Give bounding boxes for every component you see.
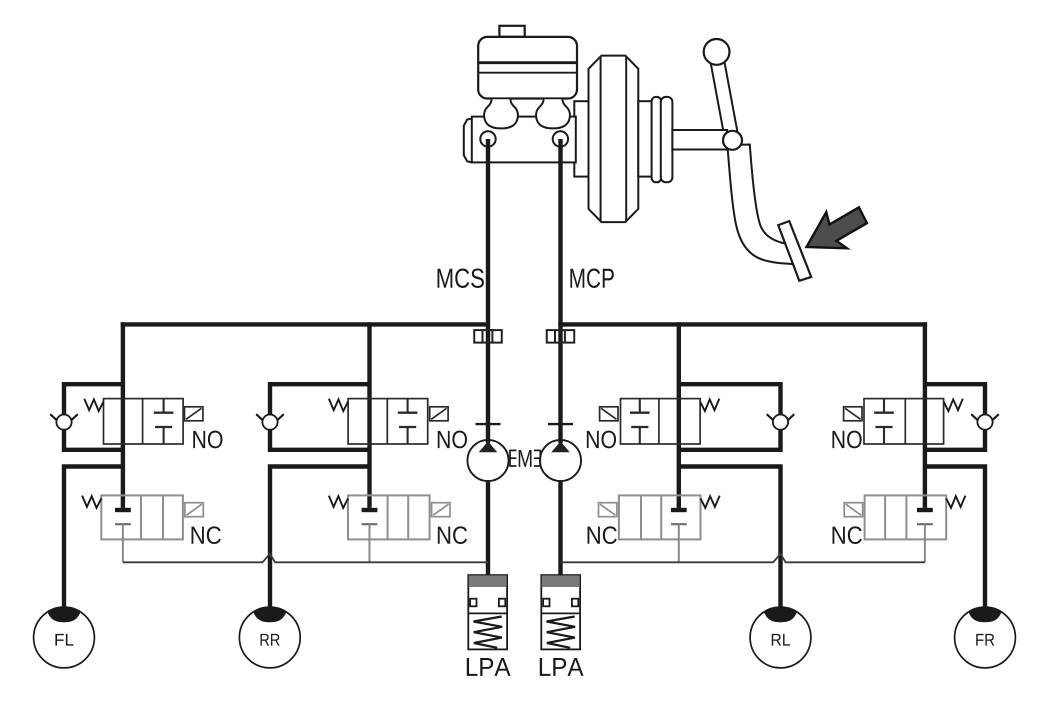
wire wheel branch group 4 (925, 467, 985, 610)
solenoid of NO valve 4 (844, 407, 862, 421)
label RR (260, 634, 279, 646)
label NO 1 (193, 431, 222, 449)
NC valve 4 (865, 495, 947, 539)
pushrod joint (723, 131, 742, 150)
NO valve 2 (348, 399, 428, 444)
label MCP (570, 269, 613, 288)
booster right connector (638, 101, 652, 176)
reservoir (478, 37, 577, 99)
wire rail group 2 (367, 322, 371, 508)
wheel cylinder RL (750, 607, 811, 668)
wire wheel branch group 2 (270, 467, 370, 610)
booster left connector (574, 101, 588, 176)
wheel cylinder FR (955, 607, 1016, 668)
label NO 4 (832, 431, 861, 449)
MC port MCP (553, 131, 568, 146)
pedal lever lower arm (727, 145, 797, 265)
booster ring 1 (652, 97, 662, 182)
wire wheel branch group 3 (679, 467, 781, 610)
wire wheel branch group 1 (64, 467, 123, 610)
solenoid of NC valve 2 (432, 503, 450, 517)
closed seat of NC valve 1 (115, 508, 131, 524)
closed seat of NC valve 4 (917, 508, 933, 524)
pump 1 (MCS) (467, 440, 508, 481)
spring of NO valve 4 (944, 399, 963, 411)
wire bypass loop group 1 (64, 384, 123, 452)
motor shaft coupling right (534, 450, 540, 467)
drain wire group 4 (924, 524, 926, 562)
spring of NC valve 1 (82, 496, 101, 508)
solenoid of NC valve 1 (185, 503, 203, 517)
spring of NO valve 3 (700, 399, 719, 411)
label MCS (438, 269, 484, 288)
MC port MCS (480, 131, 495, 146)
solenoid of NO valve 2 (430, 407, 448, 421)
label FR (976, 634, 994, 646)
pushrod (672, 130, 727, 150)
closed seat of NC valve 2 (362, 508, 378, 524)
reservoir port hump right (536, 99, 570, 128)
NO valve 4 (864, 399, 944, 444)
motor shaft coupling left (510, 450, 516, 467)
drain wire group 2 (369, 524, 371, 562)
spring of NC valve 2 (329, 496, 348, 508)
damper on MCS line (474, 330, 502, 343)
wire MCS vertical (486, 139, 490, 577)
label NC 1 (192, 526, 221, 544)
solenoid of NC valve 4 (844, 503, 862, 517)
NC valve 1 (101, 495, 183, 539)
wheel cylinder FL (34, 607, 95, 668)
closed seat of NC valve 3 (671, 508, 687, 524)
wheel cylinder RR (239, 607, 300, 668)
force arrow (807, 207, 867, 248)
label NC 3 (588, 526, 617, 544)
left return wire (123, 554, 488, 563)
pedal pivot (704, 39, 730, 65)
NC valve 3 (619, 495, 701, 539)
spring of NC valve 3 (701, 496, 720, 508)
pump 2 (MCP) (540, 440, 581, 481)
label NO 2 (438, 431, 467, 449)
solenoid of NC valve 3 (599, 503, 617, 517)
label NC 2 (438, 526, 467, 544)
wire left manifold (121, 322, 490, 326)
reservoir port hump left (484, 99, 518, 128)
label NC 4 (833, 526, 862, 544)
accumulator LPA 1 (468, 575, 507, 649)
motor M label (519, 450, 532, 467)
outlet tick pump 2 (MCP) (548, 423, 573, 425)
NC valve 2 (348, 495, 430, 539)
spring of NC valve 4 (946, 496, 965, 508)
label LPA 1 (467, 658, 511, 676)
drain wire group 1 (122, 524, 124, 562)
solenoid of NO valve 3 (600, 407, 618, 421)
check valve group 1 (50, 414, 78, 430)
spring of NO valve 2 (329, 399, 348, 411)
accumulator LPA 2 (541, 575, 580, 649)
master cylinder body (464, 117, 576, 163)
outlet tick pump 1 (MCS) (476, 423, 501, 425)
label LPA 2 (540, 658, 584, 676)
label NO 3 (587, 431, 616, 449)
wire bypass loop group 2 (270, 384, 370, 452)
label FL (55, 634, 73, 646)
wire rail group 4 (923, 322, 927, 508)
solenoid of NO valve 1 (185, 407, 203, 421)
wire MCP vertical (558, 139, 562, 577)
wire bypass loop group 3 (679, 384, 781, 452)
booster ring 2 (661, 97, 673, 182)
wire bypass loop group 4 (925, 384, 985, 452)
check valve group 4 (971, 414, 999, 430)
drain wire group 3 (678, 524, 680, 562)
wire rail group 1 (121, 322, 125, 508)
right return wire (561, 554, 925, 563)
reservoir cap (499, 26, 524, 37)
pedal lever upper arm (709, 51, 739, 142)
label RL (772, 634, 790, 646)
NO valve 1 (104, 399, 184, 444)
wire right manifold (558, 322, 927, 326)
check valve group 2 (256, 414, 284, 430)
wire rail group 3 (677, 322, 681, 508)
damper on MCP line (547, 330, 575, 343)
check valve group 3 (767, 414, 795, 430)
pedal pad (778, 221, 811, 281)
booster drum (589, 56, 639, 223)
NO valve 3 (621, 399, 701, 444)
spring of NO valve 1 (84, 399, 103, 411)
